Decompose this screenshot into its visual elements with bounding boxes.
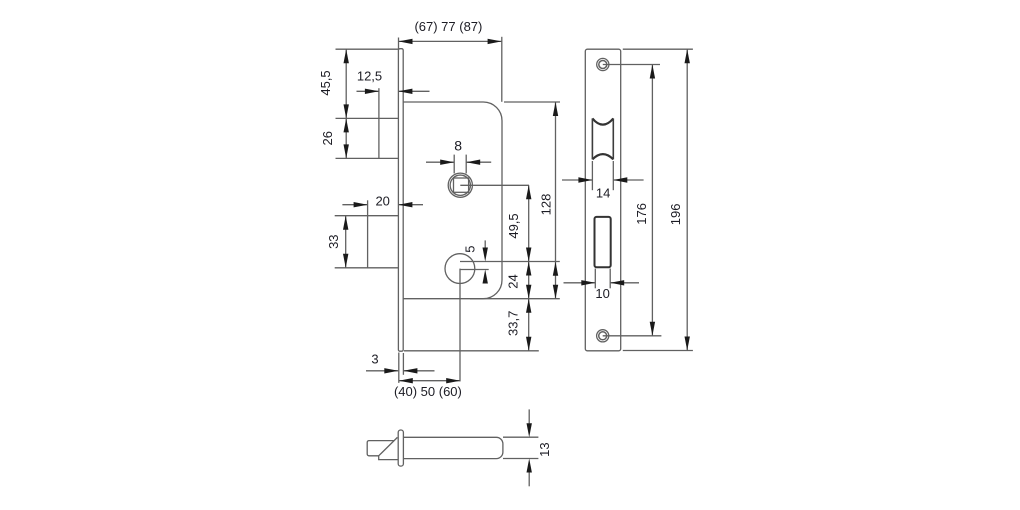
arrow 176 top [650,65,655,79]
arrow 33,7 top [526,299,531,313]
8 dim extension right [465,155,467,174]
svg-text:(40) 50 (60): (40) 50 (60) [394,384,462,399]
hole centre vertical to 50 dim [459,269,461,382]
svg-text:3: 3 [371,351,378,366]
arrow 33 top [343,216,348,230]
extension line 33 bottom [335,267,399,269]
arrow 128 bottom [553,285,558,299]
13 dim extension top [503,436,538,438]
extension line top (45,5) [336,48,399,50]
arrow 24 bottom [526,285,531,299]
latch bevel diagonal [379,437,398,455]
leader 10 left [564,282,596,284]
13 dim line bottom [528,472,530,486]
latch head back [367,441,394,456]
14 dim extension left [591,161,593,190]
svg-text:8: 8 [454,137,462,153]
latch bolt front (bold spool) [592,118,613,159]
arrow 3 right [403,368,417,373]
svg-text:45,5: 45,5 [318,70,333,95]
arrow 50 right [446,378,460,383]
leader 14 left [562,179,592,181]
case bottom extension [470,298,560,300]
leader 12,5 right [398,90,429,92]
arrow 45,5 bottom [344,104,349,118]
svg-text:20: 20 [375,194,389,209]
arrow 50 left [399,378,413,383]
leader 20 left [342,204,367,206]
196 top extension [623,48,693,50]
faceplate (side view) [398,49,403,352]
arrow 128 top [553,102,558,116]
arrow 13 top [527,423,532,437]
arrow 8 right [466,160,480,165]
svg-text:176: 176 [634,203,649,225]
50 dim faceplate left extension [398,353,400,383]
arrow 5 top [483,248,488,262]
svg-text:14: 14 [596,186,610,201]
arrow 26 bottom [344,144,349,158]
arrow 3 left [384,368,398,373]
deadbolt recess edge vertical [367,200,369,267]
dimension line (40) 50 (60) [399,380,460,382]
latch shaft (bottom view) [403,437,503,458]
dimension line 45,5 / 26 [345,49,347,158]
deadbolt front (bold rect) [595,217,611,267]
arrow 12,5 right [398,89,412,94]
bottom screw hole inner [599,332,607,340]
arrow 196 top [685,49,690,63]
leader 20 right [398,204,423,206]
leader 3 left [366,370,398,372]
svg-text:13: 13 [537,442,552,456]
svg-text:33: 33 [326,234,341,248]
faceplate left edge extension up [398,38,400,49]
arrow (67)77(87) left [399,39,413,44]
svg-text:26: 26 [320,131,335,145]
reference line A [460,261,560,263]
square centre extension to 49,5 [460,184,529,186]
case right edge extension up [501,37,503,102]
extension line 45,5/26 boundary [336,117,399,119]
5 dim upper line [484,240,486,247]
arrow 33,7 bottom [526,337,531,351]
arrow 24 upper on 128 line [553,262,558,276]
arrow 26 top [344,118,349,132]
leader 12,5 left [357,90,379,92]
bottom screw hole outer [597,330,609,342]
leader 14 right [613,179,643,181]
arrow 13 bottom [527,459,532,473]
top dimension line (67) 77 (87) [399,40,502,42]
strike plate outline (front view) [585,49,620,351]
arrow 33 bottom [343,254,348,268]
dimension line 176 [651,65,653,336]
13 dim extension bottom [503,458,538,460]
arrow 20 right [398,202,412,207]
arrow 10 left [581,280,595,285]
arrow 176 bottom [650,322,655,336]
reference line B (hole centre) [460,269,489,271]
svg-text:49,5: 49,5 [506,213,521,238]
case top extension [504,101,560,103]
arrow 24 top [526,262,531,276]
svg-text:24: 24 [506,274,521,288]
leader 8 right [466,161,491,163]
arrow (67)77(87) right [488,39,502,44]
arrow 12,5 left [365,89,379,94]
13 dim line top [528,409,530,423]
arrow 14 left [578,177,592,182]
dimension line 128 [555,102,557,299]
176 top extension (from screw centre) [603,64,660,66]
latch recess edge vertical [378,88,380,158]
arrow 45,5 top [344,49,349,63]
dimension line 49,5 / 24 / 33,7 [528,185,530,350]
cylinder hole circle [445,254,475,284]
176 bottom extension (from screw centre) [603,335,662,337]
arrow 20 left [354,202,368,207]
latch head bottom step [379,455,399,459]
hub outer circle [448,173,472,197]
top screw hole outer [597,58,609,70]
arrow 14 right [613,177,627,182]
leader 3 right [403,370,434,372]
extension line 33 top [335,215,399,217]
arrow 196 bottom [685,337,690,351]
10 dim extension left [594,269,596,289]
arrow 49,5 bottom [526,248,531,262]
arrow 49,5 top [526,185,531,199]
10 dim extension right [609,269,611,289]
arrow 5 bottom [483,270,488,284]
3 dim faceplate right extension [402,353,404,375]
svg-text:10: 10 [595,286,609,301]
svg-text:33,7: 33,7 [505,311,520,336]
lock case body (side view) [403,102,502,299]
svg-text:196: 196 [668,204,683,226]
leader 8 left [426,161,454,163]
extension line 26 bottom [336,157,399,159]
spindle square hole [454,178,469,192]
14 dim extension right [612,161,614,190]
faceplate (bottom view) [398,430,403,466]
svg-text:(67) 77 (87): (67) 77 (87) [414,19,482,34]
196 bottom extension [623,350,693,352]
faceplate bottom extension [404,350,539,352]
arrow 8 left [440,160,454,165]
dimension line 33 [345,216,347,268]
arrow 10 right [610,280,624,285]
8 dim extension left [453,155,455,174]
latch bolt front sides [592,118,613,159]
dimension line 196 [686,49,688,350]
top screw hole inner [599,61,607,69]
hub inner circle [450,175,470,195]
svg-text:12,5: 12,5 [357,68,382,83]
svg-text:5: 5 [462,246,477,253]
svg-text:128: 128 [539,194,554,216]
leader 10 right [610,282,639,284]
5 dim lower line [484,282,486,284]
